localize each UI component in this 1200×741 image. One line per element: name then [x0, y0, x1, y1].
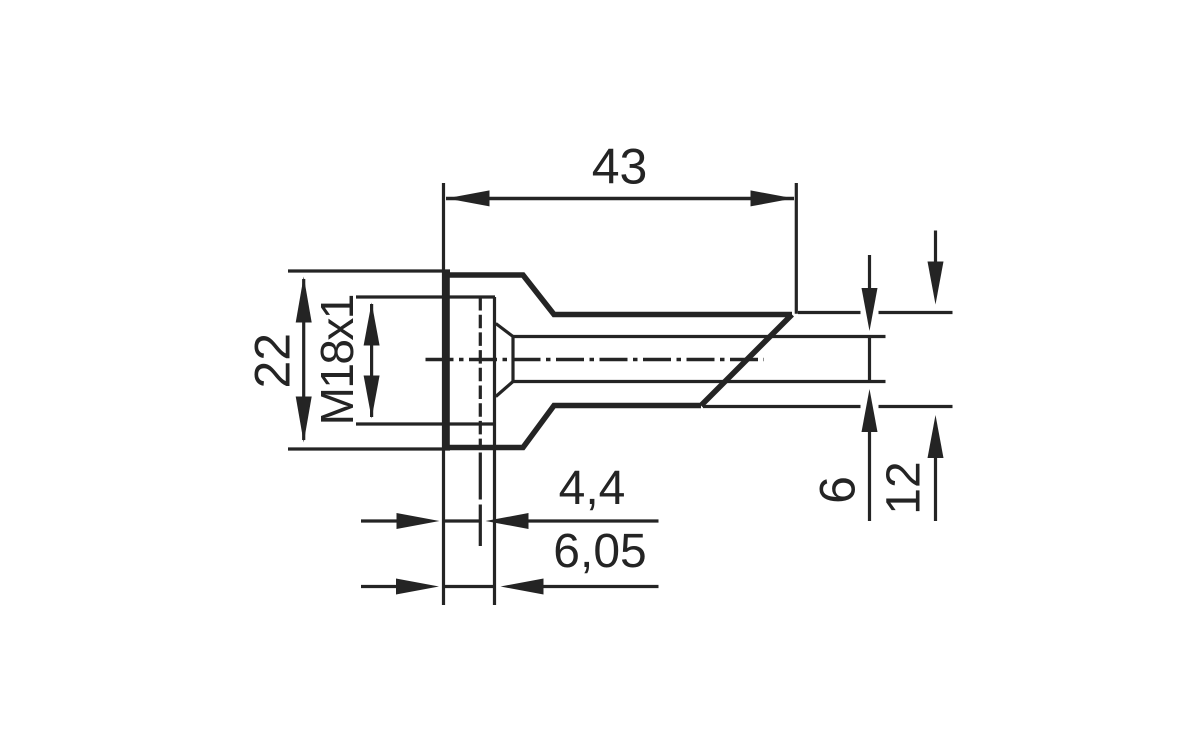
dimension 6,05: dimension line right stem	[543, 585, 659, 588]
dimension 6,05: right arrowhead	[501, 579, 544, 595]
svg-text:43: 43	[592, 139, 648, 195]
dimension 22: bottom extension line	[288, 447, 450, 450]
dimension 12: bottom arrowhead	[928, 415, 944, 458]
part outline: head and tapered shaft (thick)	[444, 272, 792, 450]
dimension 43: left extension line	[442, 183, 445, 605]
dimension 4,4: dimension line right stem	[528, 519, 659, 522]
dimension M18x1: top arrowhead	[364, 303, 380, 346]
dimension 22: top arrowhead	[296, 277, 312, 323]
dimension 12: bottom arrow stem	[934, 455, 937, 521]
dimension 43: left arrowhead	[447, 190, 490, 206]
thread bore top line / M18x1 extension line	[356, 295, 495, 298]
svg-text:12: 12	[878, 461, 931, 514]
dimension 6: top arrowhead	[862, 288, 878, 331]
svg-text:6: 6	[810, 476, 866, 504]
cone face vertical	[511, 337, 514, 382]
svg-text:M18x1: M18x1	[311, 295, 363, 425]
dimension 22: bottom arrowhead	[296, 397, 312, 443]
dimension 43: right arrowhead	[751, 190, 794, 206]
thread end face vertical line / 6,05 extension line	[493, 297, 496, 605]
svg-text:22: 22	[245, 333, 301, 389]
dimension 12: bottom extension line (with gap at arrow of 6)	[703, 405, 953, 408]
dimension 6: bottom arrow stem	[868, 428, 871, 521]
dimension 4,4: connector between extension lines	[444, 519, 481, 522]
dimension 6: bottom arrowhead	[862, 389, 878, 432]
dimension 6,05: dimension line left stem	[361, 585, 397, 588]
thread bore bottom line / M18x1 extension line	[356, 422, 495, 425]
4,4 extension line below part (long dashes)	[479, 453, 482, 547]
svg-text:4,4: 4,4	[559, 462, 626, 515]
dimension 6: connector between bore lines	[868, 338, 871, 380]
dimension M18x1: bottom arrowhead	[364, 376, 380, 419]
svg-text:6,05: 6,05	[553, 525, 646, 578]
dimension 43: right extension line	[795, 183, 798, 314]
dimension 4,4: right arrowhead	[486, 513, 529, 529]
dimension 12: top arrowhead	[928, 262, 944, 305]
dimension 6,05: left arrowhead	[396, 579, 439, 595]
dimension 22: dimension line	[302, 279, 305, 440]
dimension M18x1: dimension line	[370, 304, 373, 417]
dimension 22: top extension line	[288, 269, 450, 272]
dimension 6: top arrow stem	[868, 255, 871, 292]
dimension 12: top arrow stem	[934, 231, 937, 267]
small bore bottom line / 6 extension line	[513, 380, 886, 383]
hidden line (dashed) thread runout / 4,4 extension	[479, 297, 482, 448]
small bore top line / 6 extension line	[513, 335, 886, 338]
cone transition top slant	[496, 324, 513, 337]
centerline (dash-dot)	[426, 358, 765, 361]
dimension 4,4: dimension line left stem	[361, 519, 398, 522]
dimension 12: top extension line (with gap at arrow of 6)	[798, 311, 953, 314]
dimension 4,4: left arrowhead	[397, 513, 440, 529]
dimension 43: dimension line	[446, 197, 794, 201]
dimension 6,05: connector between extension lines	[444, 585, 495, 588]
cone transition bottom slant	[496, 382, 513, 397]
